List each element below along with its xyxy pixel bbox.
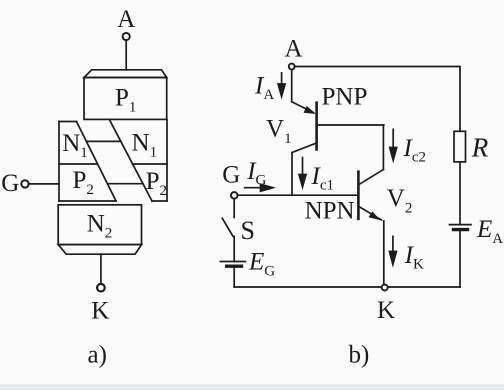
svg-text:PNP: PNP xyxy=(322,84,368,111)
svg-text:G: G xyxy=(222,162,240,189)
svg-text:a): a) xyxy=(88,342,107,369)
svg-text:S: S xyxy=(241,216,255,245)
svg-text:A: A xyxy=(117,6,135,33)
svg-text:b): b) xyxy=(349,342,370,369)
svg-text:K: K xyxy=(377,297,395,324)
svg-text:NPN: NPN xyxy=(305,197,355,224)
svg-text:K: K xyxy=(91,298,109,325)
svg-text:G: G xyxy=(1,170,19,197)
svg-text:R: R xyxy=(471,133,489,163)
svg-text:A: A xyxy=(285,36,303,63)
